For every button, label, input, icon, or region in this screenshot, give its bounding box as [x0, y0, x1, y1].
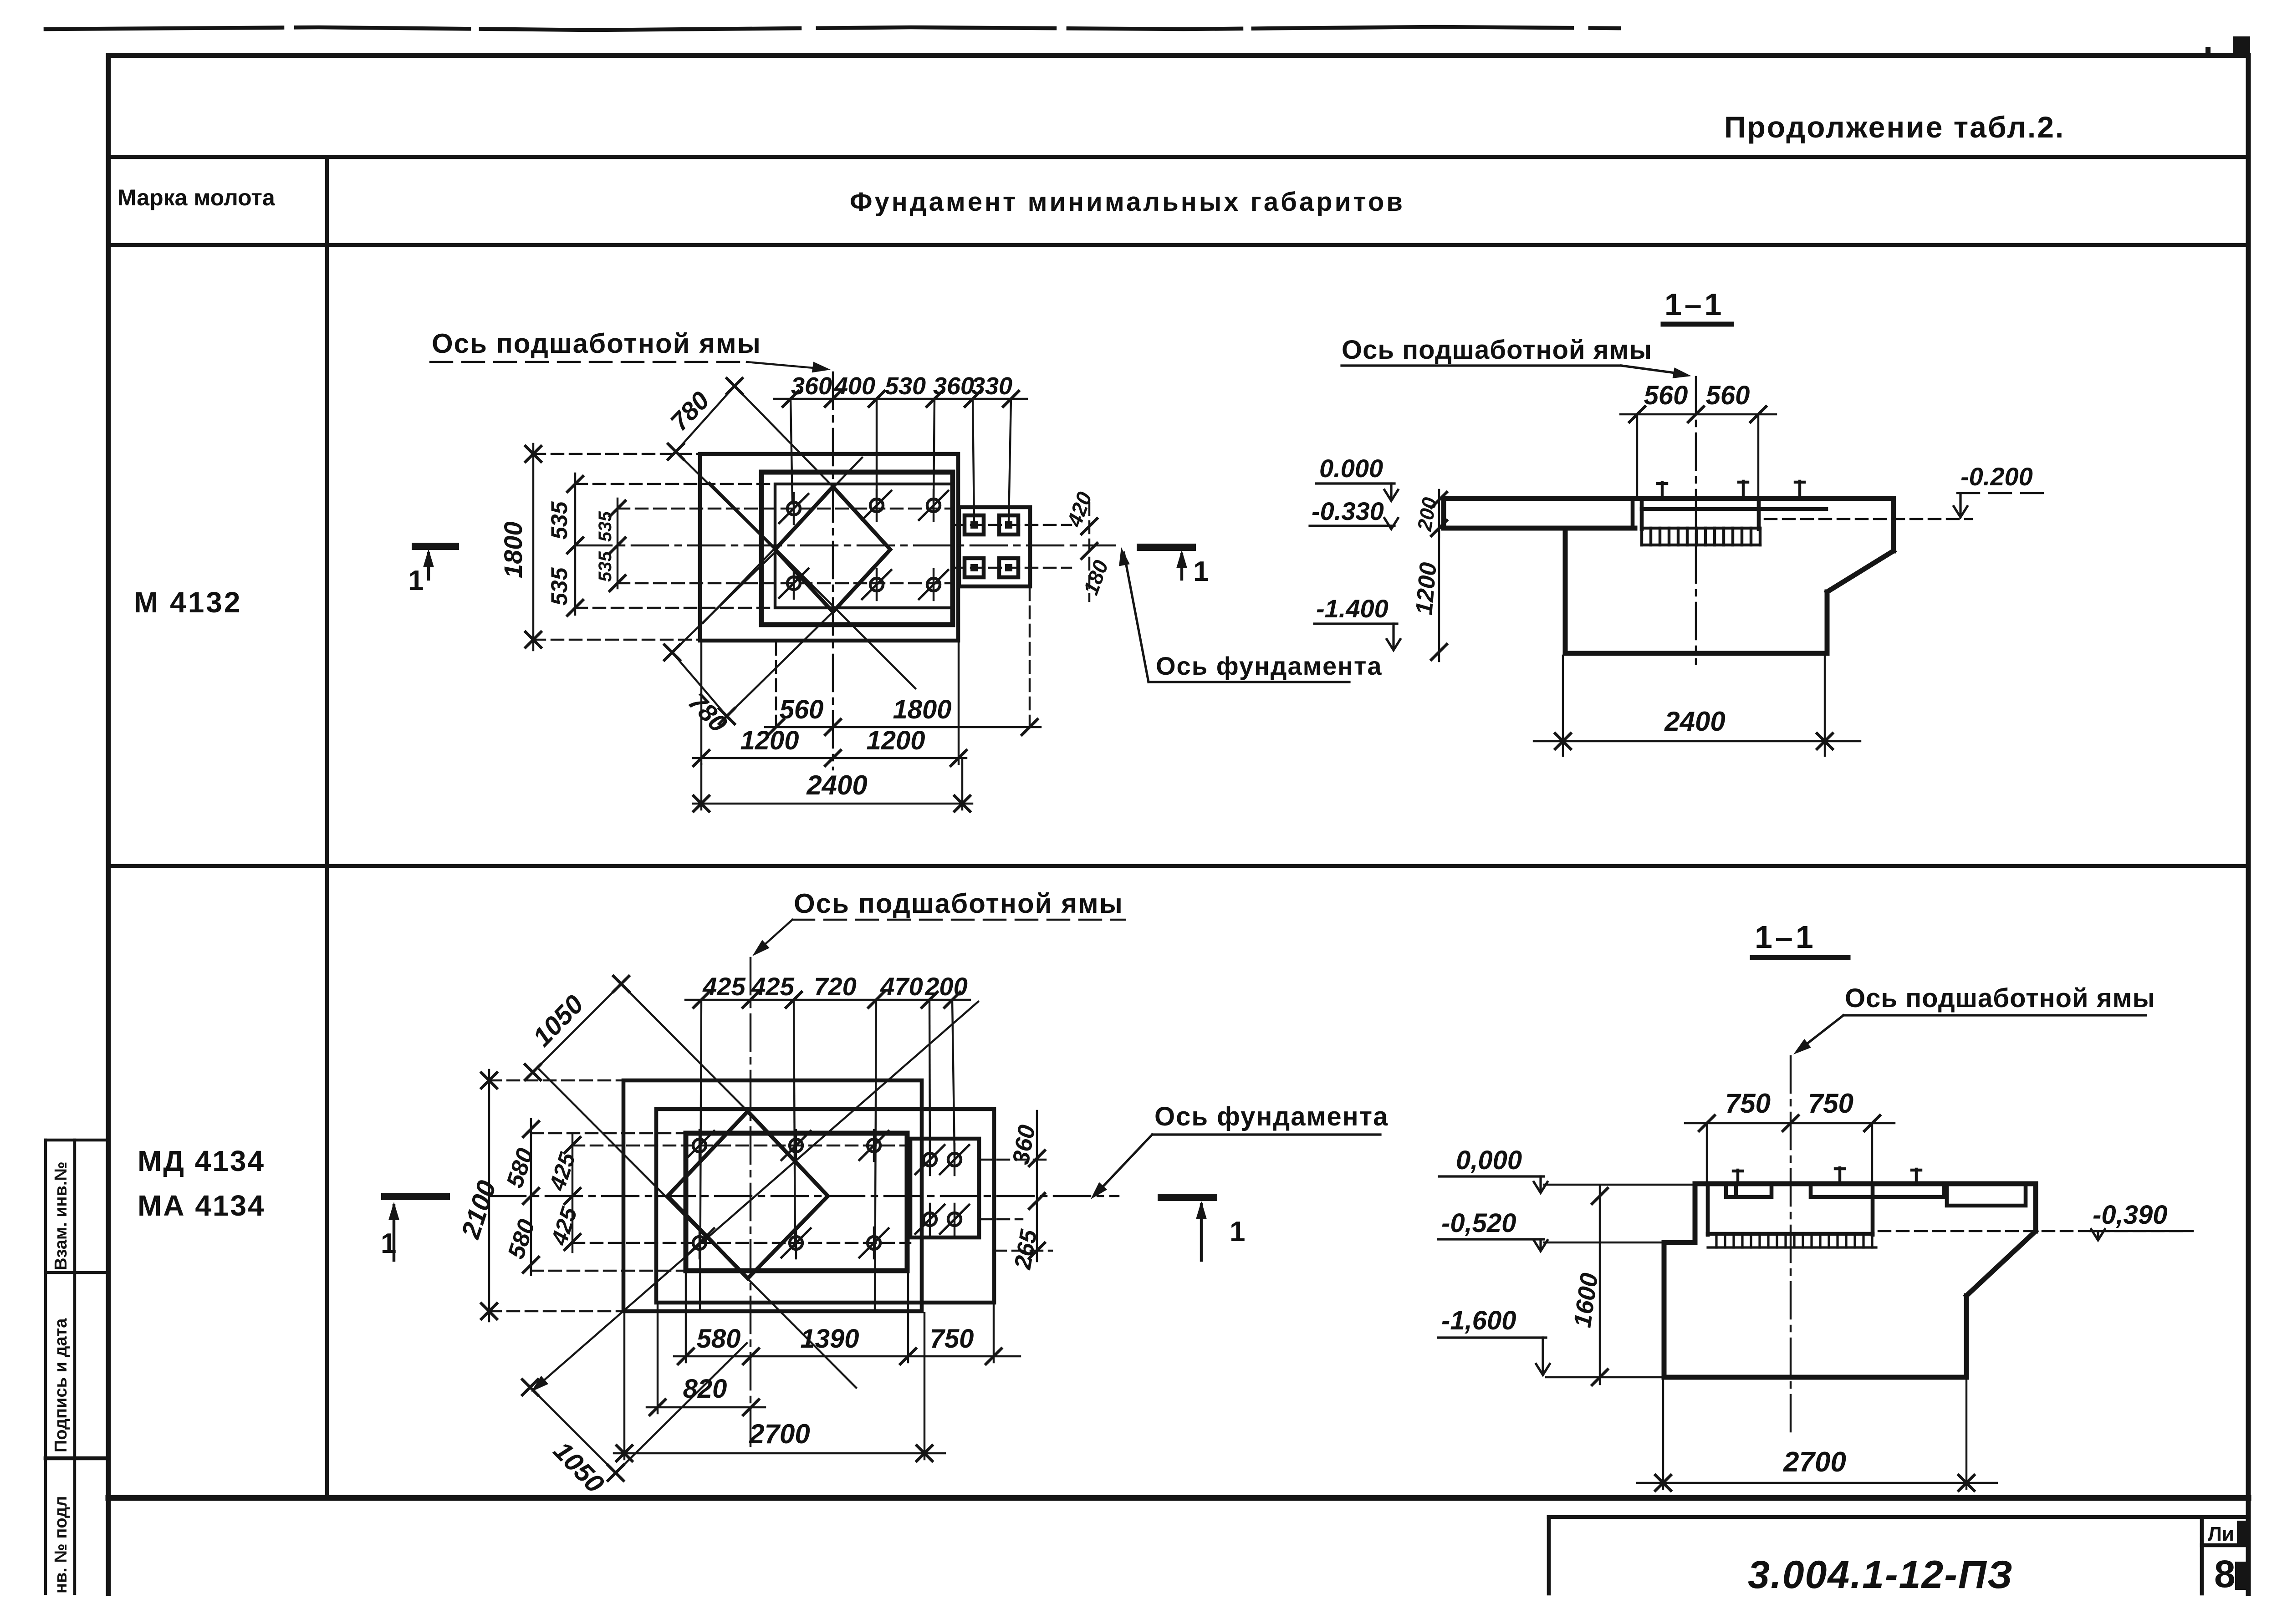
- bolt stubs row1 section: [1658, 481, 1804, 499]
- label: Ось подшаботной ямы (row1 section): [1342, 335, 1692, 382]
- pit bottom row2: [1708, 1232, 1873, 1236]
- elevation -0.390 row2: [2090, 1200, 2193, 1240]
- svg-text:1800: 1800: [499, 521, 527, 578]
- header row bottom line: [108, 243, 2248, 247]
- diagonal dim 780 top row1: [664, 378, 836, 551]
- label: Ось подшаботной ямы (row2 plan): [749, 888, 1125, 960]
- hatched anchor strip row2: [1708, 1234, 1876, 1247]
- svg-text:780: 780: [683, 687, 733, 738]
- svg-text:750: 750: [930, 1324, 974, 1354]
- svg-text:1800: 1800: [893, 695, 951, 724]
- label: Ось фундамента row2: [1087, 1102, 1389, 1203]
- svg-text:нв. № подл: нв. № подл: [51, 1496, 71, 1593]
- pit walls row2: [1706, 1184, 1710, 1235]
- bottom dim 560/1800 row1: [765, 588, 1041, 735]
- elevation -0.330 row1: [1310, 497, 1398, 529]
- section mark 1 right row2: [1161, 1197, 1245, 1260]
- svg-text:-1,600: -1,600: [1441, 1306, 1516, 1335]
- svg-text:560: 560: [1706, 381, 1750, 410]
- anchor bolts row1 plan: [779, 493, 808, 524]
- svg-text:2100: 2100: [455, 1177, 502, 1242]
- svg-text:3.004.1-12-ПЗ: 3.004.1-12-ПЗ: [1748, 1553, 2013, 1597]
- svg-text:Ось подшаботной ямы: Ось подшаботной ямы: [794, 888, 1123, 919]
- svg-text:Фундамент минимальных габарито: Фундамент минимальных габаритов: [850, 187, 1405, 217]
- anchor bolts row2 plan: [685, 1130, 714, 1161]
- svg-text:560: 560: [1644, 381, 1688, 410]
- elevation 0,000 row2: [1439, 1145, 1695, 1193]
- svg-text:580: 580: [697, 1324, 741, 1354]
- elevation -0,520 row2: [1438, 1208, 1664, 1251]
- construction diagonal A row2: [539, 1069, 856, 1388]
- left step row2: [1693, 1184, 1698, 1242]
- elevation -0.200 row1: [1954, 462, 2043, 517]
- svg-text:360: 360: [933, 372, 974, 400]
- svg-text:535: 535: [595, 511, 615, 542]
- outer rectangle B row2: [656, 1109, 994, 1303]
- hidden pit lines left extension row1: [575, 483, 775, 485]
- right dims 360/265 row2: [1008, 1111, 1045, 1272]
- svg-text:-0,390: -0,390: [2093, 1200, 2167, 1230]
- level dash line -0.200 row1: [1765, 518, 1972, 520]
- column divider: [325, 157, 329, 1498]
- section profile row1: top slab: [1444, 496, 1894, 501]
- svg-text:425: 425: [544, 1149, 581, 1194]
- title block left edge: [1547, 1517, 1551, 1593]
- dim 535+535 inner row1: [595, 499, 625, 591]
- construction diagonals row1: [710, 483, 915, 688]
- svg-text:-0.330: -0.330: [1312, 497, 1384, 525]
- left stamp column box: [46, 1139, 108, 1141]
- dim 1200 rotated row1 section: [1411, 528, 1565, 661]
- svg-text:1–1: 1–1: [1664, 287, 1724, 322]
- axis of pit row2 section: [1790, 1056, 1792, 1433]
- svg-text:535: 535: [595, 551, 615, 582]
- bottom dim 2400 row1: [693, 758, 972, 811]
- top dim chain row1: 360 400 530 360 330: [774, 372, 1027, 407]
- svg-text:Ли: Ли: [2208, 1523, 2234, 1545]
- svg-text:2700: 2700: [1783, 1446, 1846, 1478]
- bolt flange box row2: [910, 1139, 979, 1237]
- drawing frame: [108, 53, 2248, 58]
- svg-text:Ось подшаботной ямы: Ось подшаботной ямы: [1845, 983, 2155, 1013]
- top dim chain row2: 425 425 720 470 200: [685, 972, 970, 1008]
- label: Ось подшаботной ямы (row1 plan): [430, 328, 832, 375]
- section title 1-1 row1: [1663, 287, 1731, 324]
- axis of pit (vertical dash-dot) row1 plan: [832, 372, 834, 769]
- svg-text:МА 4134: МА 4134: [138, 1189, 265, 1222]
- axis of pit row2 plan (vertical): [750, 958, 751, 1453]
- svg-text:Взам. инв.№: Взам. инв.№: [51, 1161, 71, 1270]
- foundation body row1 section: [1563, 528, 1568, 653]
- bottom dim 2400 row1 section: [1534, 656, 1860, 756]
- svg-text:1: 1: [381, 1228, 396, 1259]
- svg-text:750: 750: [1808, 1088, 1853, 1119]
- right small dims 420/180 row1: [1062, 489, 1113, 601]
- dim 425/425 row2: [544, 1135, 582, 1252]
- svg-text:400: 400: [834, 372, 875, 400]
- dim 560/560 row1 section: [1620, 381, 1776, 500]
- svg-text:425: 425: [546, 1204, 582, 1249]
- anvil diamond row1: [775, 487, 890, 612]
- svg-text:200: 200: [924, 972, 967, 1001]
- bottom dim 2700 row2 section: [1637, 1380, 1997, 1491]
- svg-text:2400: 2400: [806, 770, 867, 800]
- pit mid rectangle row1: [761, 472, 953, 625]
- pit inner rectangle row1: [775, 484, 953, 608]
- svg-text:425: 425: [702, 972, 745, 1001]
- horizontal center axis row1 plan: [575, 545, 1115, 546]
- hatched anchor strip row1: [1642, 528, 1760, 545]
- svg-text:0.000: 0.000: [1319, 454, 1383, 483]
- svg-text:180: 180: [1079, 557, 1113, 598]
- svg-text:1390: 1390: [800, 1324, 859, 1354]
- svg-text:Ось подшаботной ямы: Ось подшаботной ямы: [1342, 335, 1652, 365]
- svg-text:580: 580: [501, 1145, 539, 1191]
- flange bolts row2: [915, 1144, 944, 1175]
- svg-text:425: 425: [751, 972, 794, 1001]
- top chain extension lines row1: [791, 399, 792, 504]
- dim 580/580 row2: [501, 1119, 540, 1275]
- svg-text:1: 1: [408, 565, 424, 596]
- diagonal dim 1050 bottom row2: [522, 1343, 747, 1499]
- label: Ось подшаботной ямы (row2 section): [1790, 983, 2155, 1059]
- foundation body row2 section: [1662, 1242, 1667, 1377]
- svg-text:Подпись и дата: Подпись и дата: [51, 1318, 71, 1452]
- pit walls row1: [1640, 499, 1644, 529]
- left vertical dim 1800 row1: [499, 444, 700, 650]
- horizontal center axis row2 plan: [489, 1195, 1118, 1197]
- svg-text:8: 8: [2214, 1553, 2236, 1595]
- hidden pit lines left row2: [531, 1132, 686, 1134]
- bottom dim 2700 row2 plan: [614, 1313, 945, 1461]
- page corner artifact: [2233, 36, 2250, 57]
- step to pit row1: [1631, 499, 1635, 528]
- dim 200 rotated row1 section: [1413, 490, 1447, 537]
- rough scan line top: [46, 27, 1619, 30]
- svg-text:0,000: 0,000: [1456, 1145, 1522, 1175]
- label: Ось фундамента row1: [1116, 546, 1382, 682]
- outer rectangle A row2: [623, 1080, 922, 1311]
- bottom dim 580/1390/750 row2: [674, 1273, 1020, 1364]
- hidden flange lines right row2: [979, 1159, 1052, 1161]
- svg-text:Ось подшаботной ямы: Ось подшаботной ямы: [432, 328, 761, 359]
- top chain extension lines row2: [700, 1000, 701, 1309]
- svg-text:Продолжение табл.2.: Продолжение табл.2.: [1724, 110, 2065, 144]
- hidden bolt lines right row1: [953, 524, 1071, 526]
- svg-text:2700: 2700: [749, 1419, 810, 1449]
- left vertical dim 2100 row2: [455, 1070, 623, 1321]
- svg-text:-1.400: -1.400: [1316, 594, 1389, 623]
- bolt stubs row2 section: [1733, 1168, 1921, 1184]
- svg-text:535: 535: [546, 567, 572, 606]
- anvil diamond row2: [668, 1111, 828, 1278]
- section mark 1 left row2: [381, 1196, 446, 1260]
- bolt flange box right row1: [959, 507, 1030, 586]
- svg-text:200: 200: [1413, 495, 1441, 533]
- svg-text:470: 470: [880, 972, 923, 1001]
- construction diagonal B row2: [533, 1002, 978, 1390]
- svg-text:1: 1: [1193, 556, 1209, 587]
- svg-text:2400: 2400: [1664, 706, 1725, 737]
- svg-text:750: 750: [1725, 1088, 1771, 1119]
- pit rectangle row2: [686, 1133, 907, 1271]
- sheet mini-box: [2200, 1517, 2204, 1593]
- svg-text:Ось фундамента: Ось фундамента: [1154, 1102, 1389, 1131]
- diagonal dim 780 bottom row1: [664, 551, 836, 738]
- svg-text:360: 360: [791, 372, 832, 400]
- foundation outer rectangle row1: [700, 454, 958, 641]
- svg-text:265: 265: [1010, 1227, 1043, 1272]
- svg-text:Марка молота: Марка молота: [117, 185, 276, 210]
- svg-text:1200: 1200: [1411, 561, 1442, 616]
- bottom dim 820 row2: [647, 1304, 765, 1415]
- svg-text:560: 560: [780, 695, 824, 724]
- row divider: [108, 864, 2248, 868]
- section title 1-1 row2: [1752, 919, 1848, 957]
- level dash line -0.390 row2: [1879, 1230, 2186, 1232]
- svg-text:580: 580: [503, 1216, 540, 1262]
- anchor slots in pit top row2: [1726, 1184, 2026, 1206]
- svg-text:1600: 1600: [1568, 1271, 1603, 1329]
- dim 535+535 outer row1: [546, 473, 583, 616]
- svg-text:1200: 1200: [866, 726, 925, 755]
- svg-text:535: 535: [546, 501, 572, 540]
- svg-text:720: 720: [814, 972, 856, 1001]
- svg-text:1050: 1050: [548, 1436, 610, 1499]
- elevation -1.400 row1: [1314, 594, 1400, 650]
- title block top line: [1549, 1515, 2248, 1519]
- section profile row2: top slab: [1695, 1181, 2036, 1186]
- svg-text:МД 4134: МД 4134: [138, 1145, 265, 1177]
- elevation 0.000 row1: [1316, 454, 1398, 501]
- table band divider: [108, 155, 2248, 159]
- svg-text:780: 780: [664, 386, 715, 436]
- anchor ledge line row1: [1642, 507, 1826, 511]
- svg-text:1200: 1200: [740, 726, 799, 755]
- axis of pit row1 section: [1695, 377, 1697, 664]
- section mark 1 left row1: [408, 546, 455, 596]
- svg-text:1: 1: [1230, 1216, 1245, 1247]
- svg-text:330: 330: [971, 372, 1012, 400]
- dim 1600 rotated row2 section: [1568, 1186, 1608, 1385]
- svg-text:М 4132: М 4132: [134, 586, 242, 619]
- svg-text:-0,520: -0,520: [1441, 1208, 1516, 1238]
- flange bolts row1: [965, 515, 984, 535]
- svg-text:Ось фундамента: Ось фундамента: [1156, 652, 1383, 680]
- elevation -1,600 row2: [1438, 1306, 1664, 1377]
- bottom dim 1200/1200 row1: [693, 643, 966, 766]
- svg-text:-0.200: -0.200: [1960, 462, 2033, 491]
- svg-text:530: 530: [885, 372, 926, 400]
- section mark 1 right row1: [1140, 547, 1209, 587]
- diagonal dim 1050 top row2: [525, 976, 751, 1115]
- dim 750/750 row2 section: [1685, 1088, 1894, 1185]
- svg-text:1–1: 1–1: [1755, 919, 1816, 955]
- svg-text:820: 820: [683, 1374, 727, 1404]
- svg-text:1050: 1050: [527, 989, 589, 1052]
